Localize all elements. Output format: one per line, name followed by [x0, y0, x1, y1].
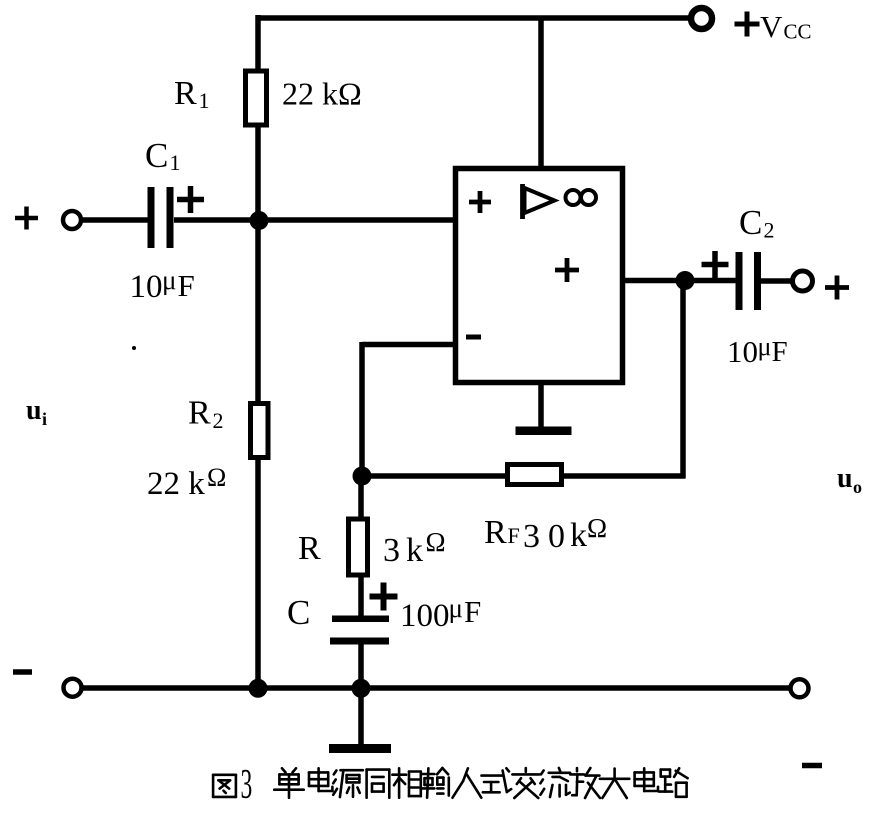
ground bottom: [329, 744, 391, 753]
wire inverting input vertical: [359, 342, 365, 478]
wire gnd stem: [358, 688, 364, 746]
wire input to C1: [81, 217, 148, 223]
label C2: [739, 203, 775, 243]
svg-text:1: 1: [199, 88, 210, 113]
wire R2 top: [255, 220, 261, 403]
svg-text:10: 10: [727, 334, 758, 369]
resistor R2: [251, 404, 269, 458]
wire output down to feedback: [680, 281, 686, 479]
label R value 3k: [383, 527, 446, 569]
svg-text:μ: μ: [162, 265, 176, 295]
label C: [287, 593, 310, 632]
label output +: [825, 276, 849, 300]
svg-text:o: o: [853, 477, 862, 497]
label C1 polarity +: [177, 186, 204, 213]
scan speck artifact: [132, 346, 136, 350]
wire top rail: [258, 15, 691, 21]
label uo: [837, 463, 862, 497]
wire feedback left: [362, 473, 508, 479]
svg-text:3: 3: [241, 762, 253, 808]
svg-text:10: 10: [130, 269, 163, 305]
wire opamp gnd stem: [538, 382, 544, 430]
svg-text:2: 2: [213, 408, 224, 433]
label C2 polarity +: [702, 251, 729, 278]
svg-text:F: F: [772, 336, 788, 368]
wire C2 to output terminal: [760, 278, 794, 284]
wire R top: [358, 474, 364, 521]
svg-text:u: u: [837, 463, 853, 494]
node input junction: [250, 211, 269, 230]
svg-text:V: V: [760, 9, 783, 44]
wire C to rail: [358, 642, 364, 690]
terminal +VCC: [691, 8, 712, 29]
ground op-amp: [516, 427, 572, 436]
svg-text:R: R: [174, 75, 197, 112]
label right -: [802, 763, 822, 769]
op-amp noninverting + mark: [469, 191, 491, 213]
svg-text:u: u: [26, 395, 42, 426]
label +VCC: [735, 9, 812, 44]
op-amp triangle symbol: [523, 184, 555, 219]
wire R2 bottom: [255, 458, 261, 690]
svg-text:i: i: [42, 409, 47, 429]
svg-text:Ω: Ω: [207, 463, 226, 492]
svg-text:1: 1: [170, 150, 181, 175]
svg-text:Ω: Ω: [426, 527, 446, 557]
wire R1 top: [255, 15, 261, 71]
caption 图3 单电源同相输入式交流放大电路: [213, 762, 687, 808]
svg-text:μ: μ: [758, 332, 772, 361]
node R2 rail junction: [249, 679, 268, 698]
svg-text:F: F: [178, 268, 195, 303]
resistor R1: [246, 71, 267, 125]
wire bottom rail: [81, 685, 791, 691]
terminal output: [793, 271, 813, 291]
wire VCC branch to opamp: [538, 18, 544, 170]
label C polarity +: [370, 583, 398, 611]
wire R1 bottom: [255, 126, 261, 223]
svg-text:R: R: [484, 514, 507, 551]
label left -: [13, 669, 32, 675]
label RF value: [484, 513, 607, 555]
svg-text:C: C: [287, 593, 310, 632]
wire C1 to opamp: [174, 217, 456, 223]
svg-text:μ: μ: [449, 593, 463, 623]
svg-text:R: R: [298, 530, 321, 567]
label ui: [26, 395, 47, 429]
label R2: [188, 395, 224, 434]
op-amp inverting - mark: [466, 335, 481, 340]
wire inverting input horizontal: [362, 342, 456, 348]
terminal bottom left: [64, 679, 82, 697]
svg-text:R: R: [188, 395, 211, 432]
label input +: [15, 207, 38, 230]
wire output: [621, 278, 737, 284]
capacitor C2: [736, 252, 762, 310]
svg-text:F: F: [508, 523, 520, 548]
svg-text:F: F: [464, 594, 481, 629]
svg-text:3: 3: [383, 532, 400, 569]
svg-text:100: 100: [400, 598, 450, 634]
node feedback junction: [353, 467, 372, 486]
label C2 value 10uF: [727, 332, 788, 369]
label C value 100uF: [400, 593, 481, 634]
capacitor C1: [148, 187, 174, 248]
resistor RF: [508, 465, 562, 485]
svg-text:CC: CC: [784, 20, 812, 44]
label R1 value 22k: [282, 76, 362, 112]
op-amp U1 body: [456, 169, 623, 383]
svg-text:22 kΩ: 22 kΩ: [282, 76, 362, 112]
label C1 value 10uF: [130, 265, 195, 305]
capacitor C: [330, 616, 389, 645]
op-amp infinity gain symbol: [566, 190, 597, 205]
label C1: [145, 136, 181, 175]
svg-text:Ω: Ω: [587, 513, 607, 543]
svg-text:3: 3: [523, 518, 540, 555]
svg-text:C: C: [739, 203, 762, 242]
terminal input: [63, 211, 81, 229]
label R: [298, 530, 321, 567]
label R1: [174, 75, 210, 113]
svg-text:k: k: [406, 532, 423, 569]
wire feedback right: [562, 473, 686, 479]
svg-text:22 k: 22 k: [147, 466, 205, 502]
svg-text:k: k: [570, 517, 587, 554]
svg-text:0: 0: [548, 518, 565, 555]
svg-text:2: 2: [764, 218, 775, 243]
label R2 value 22k: [147, 463, 226, 502]
op-amp output + mark: [555, 258, 579, 282]
terminal bottom right: [791, 679, 809, 697]
wire R to C: [358, 576, 364, 619]
resistor R: [349, 519, 368, 575]
svg-text:C: C: [145, 136, 168, 175]
node gnd rail junction: [352, 679, 371, 698]
node output junction: [676, 271, 695, 290]
